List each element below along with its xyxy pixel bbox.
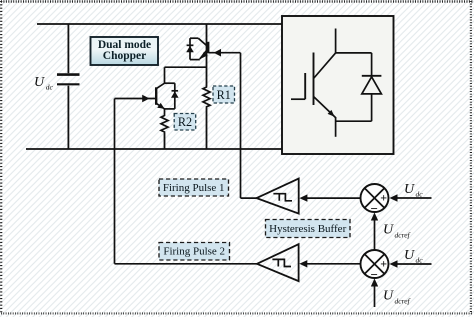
svg-text:+: + (380, 257, 387, 271)
svg-text:U: U (383, 289, 394, 304)
wire branch1 vertical upper (206, 24, 208, 86)
resistor R1 (203, 85, 210, 108)
wire R2 to bottom rail (164, 133, 166, 149)
summer S2 bottom input arrow and wire (U_dcref) (371, 279, 378, 308)
gate arrow into Q1 (209, 49, 241, 57)
svg-text:Hysteresis Buffer: Hysteresis Buffer (269, 223, 346, 235)
value label U_dc at summer S1 (404, 182, 423, 199)
value label U_dcref at summer S1 (383, 223, 411, 240)
label box Dual mode Chopper (91, 37, 159, 65)
capacitor Udc top lead wire (67, 24, 69, 73)
summing junction S2 (361, 250, 389, 282)
resistor R2 (161, 115, 168, 134)
svg-text:dcref: dcref (395, 231, 411, 240)
IGBT inside module (291, 29, 372, 137)
transistor Q1 (IGBT with antiparallel diode, gate at right) (190, 38, 208, 59)
wire mid node horizontal (Q1 emitter node to Q2 collector) (165, 67, 207, 83)
label box Firing Pulse 1 (159, 179, 229, 196)
label box R2 (174, 114, 196, 131)
svg-text:U: U (34, 75, 45, 90)
svg-text:Firing Pulse 2: Firing Pulse 2 (163, 246, 225, 258)
wire gate1 vertical down to firing pulse row 1 (241, 53, 258, 198)
summer S1 input arrow and wire (U_dc) (390, 194, 432, 201)
summing junction S1 (361, 184, 389, 216)
svg-text:R2: R2 (178, 115, 192, 129)
svg-text:R1: R1 (217, 88, 231, 102)
svg-text:U: U (404, 182, 415, 197)
svg-text:+: + (380, 191, 387, 205)
label box Hysteresis Buffer (266, 220, 351, 238)
wire Q2 emitter to R2 (164, 109, 166, 115)
wire top rail (37, 23, 282, 25)
freewheeling diode inside module (pointing up) (362, 53, 382, 121)
diode D1 (on Q1 left branch, pointing up) (186, 45, 194, 52)
summer S2 input arrow and wire (U_dc) (390, 260, 432, 267)
svg-text:Chopper: Chopper (103, 50, 146, 62)
diode D2 (on Q2 right branch, pointing up) (171, 91, 179, 98)
svg-text:U: U (404, 248, 415, 263)
IGBT module box U1 (282, 16, 394, 154)
label box R1 (213, 86, 235, 103)
capacitor Udc (57, 75, 80, 85)
svg-text:U: U (383, 223, 394, 238)
comparator U2 (hysteresis buffer 1, pointing left) (257, 179, 299, 214)
comparator U3 (hysteresis buffer 2, pointing left) (257, 244, 299, 281)
capacitor Udc bottom lead wire (67, 86, 69, 149)
value label U_dc of capacitor (34, 75, 54, 91)
value label U_dcref at summer S2 (383, 289, 411, 306)
transistor Q2 (IGBT with antiparallel diode, gate at left) (156, 83, 175, 109)
summer S1 bottom input arrow and wire (U_dcref) (371, 213, 378, 251)
wire bottom rail (26, 148, 282, 150)
gate arrow into Q2 (115, 95, 156, 103)
wire gate2 vertical down to firing pulse row 2 (115, 99, 258, 264)
comparator U3 input arrow and wire from summer 2 (299, 260, 360, 267)
svg-text:dcref: dcref (395, 297, 411, 306)
label box Firing Pulse 2 (159, 243, 230, 261)
wire branch1 vertical lower (206, 108, 208, 149)
svg-text:dc: dc (416, 256, 424, 265)
svg-text:dc: dc (46, 82, 54, 91)
value label U_dc at summer S2 (404, 248, 423, 265)
comparator U2 input arrow and wire from summer 1 (299, 194, 360, 201)
svg-text:dc: dc (416, 190, 424, 199)
svg-text:Firing Pulse 1: Firing Pulse 1 (163, 182, 225, 194)
